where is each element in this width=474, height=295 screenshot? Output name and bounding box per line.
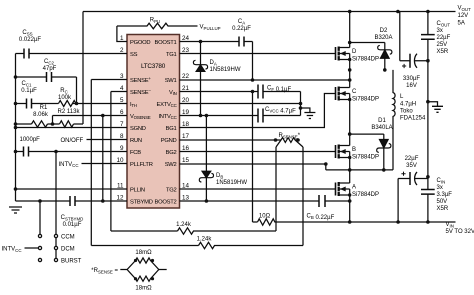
pin numbers [116,35,189,202]
svg-text:22µF: 22µF [405,156,419,162]
svg-text:16: 16 [182,145,190,152]
svg-text:50V: 50V [437,199,448,205]
svg-text:1000pF: 1000pF [20,137,41,143]
svg-text:22µF: 22µF [437,35,451,41]
svg-text:SW1: SW1 [165,78,177,84]
svg-text:3.3µF: 3.3µF [437,192,453,198]
svg-text:TG1: TG1 [166,52,177,58]
RSENSE note parallel resistors [120,258,166,270]
svg-text:1.24k: 1.24k [197,237,213,243]
wire CA to SW1 vertical [252,42,254,81]
wire BOOST2 pin13 row with CB [180,200,350,202]
svg-text:VOSENSE: VOSENSE [130,114,151,120]
svg-text:SENSE+: SENSE+ [130,76,151,84]
wire BG1 pin18 row to gate C [180,94,336,128]
svg-text:VIN: VIN [446,222,454,228]
svg-text:INTVCC: INTVCC [2,247,22,253]
svg-text:10: 10 [116,157,124,164]
svg-text:9: 9 [120,145,124,152]
svg-text:A: A [352,185,356,191]
svg-text:DCM: DCM [61,247,75,253]
node DCM left post [38,246,41,249]
svg-text:CSS: CSS [22,30,32,36]
capacitor CSS [24,49,29,59]
svg-text:D2: D2 [380,28,388,34]
svg-text:CIN: CIN [437,178,446,184]
svg-text:11: 11 [117,183,124,190]
wire SENSE+ vertical drop [90,80,92,246]
wire BOOST1 pin24 row [180,41,253,43]
svg-text:100k: 100k [58,95,72,101]
wire output cap vertical [427,12,429,223]
resistor 10ohm [258,219,456,225]
svg-text:18mΩ: 18mΩ [135,250,152,256]
capacitor CVCC [258,109,263,123]
svg-text:0.1µF: 0.1µF [21,88,37,94]
svg-text:FCB: FCB [130,150,141,156]
svg-text:0.22µF: 0.22µF [232,26,251,32]
wire INTVCC to DCM post [25,247,39,249]
wire sense bottom row with 1.24k [91,245,198,247]
svg-text:*RSENSE =: *RSENSE = [91,268,118,274]
svg-text:22: 22 [182,73,190,80]
svg-text:RSENSE*: RSENSE* [279,133,301,139]
svg-text:23: 23 [182,47,190,54]
wire FCB pin9 row with 1000pF [16,151,128,153]
svg-text:0.022µF: 0.022µF [19,37,41,43]
svg-text:3: 3 [120,73,124,80]
svg-text:2: 2 [120,47,124,54]
wire D drain vertical [349,12,351,48]
svg-text:SS: SS [130,52,138,58]
capacitor CF [258,85,263,99]
svg-text:INTVCC: INTVCC [158,114,176,120]
svg-text:R1: R1 [40,105,48,111]
svg-text:21: 21 [182,85,190,92]
svg-text:1N5819HW: 1N5819HW [210,67,241,73]
svg-text:LTC3780: LTC3780 [141,63,166,70]
inductor L [393,70,395,170]
node BURST right post [54,258,57,261]
capacitor CC2 [47,72,52,82]
wire left ground rail [15,54,17,202]
svg-text:CB 0.22µF: CB 0.22µF [307,214,335,221]
resistor R 1.24k lower [199,242,304,248]
resistor RSENSE [276,138,304,147]
svg-text:8.06k: 8.06k [33,112,49,118]
svg-text:BOOST1: BOOST1 [154,40,176,46]
svg-text:3x: 3x [437,185,443,191]
wire CC2 branch row [16,77,77,104]
svg-text:BG1: BG1 [166,126,177,132]
wire SENSE+ pin3 stub [91,79,127,81]
svg-text:1N5819HW: 1N5819HW [216,180,247,186]
svg-text:VOUT: VOUT [458,6,472,12]
wire sense lower row with 1.24k [111,230,178,232]
svg-text:Si7884DP: Si7884DP [352,97,379,103]
svg-text:C: C [352,89,357,95]
wire SGND pin7 row [16,127,128,129]
svg-text:12V: 12V [458,13,469,19]
transistor C Si7884DP [335,87,337,100]
svg-text:BG2: BG2 [166,150,177,156]
svg-text:5A: 5A [458,21,465,27]
wire VOSENSE pin6 row [53,115,128,117]
wire SW2 pin15 row [180,164,326,170]
resistor R1 [32,121,48,127]
capacitor COUT ceramic [421,35,435,40]
svg-text:13: 13 [182,195,190,202]
svg-text:14: 14 [182,183,190,190]
node BURST left post [38,258,41,261]
svg-text:PGOOD: PGOOD [130,40,150,46]
svg-text:4.7µH: 4.7µH [400,101,416,107]
wire VOSENSE tap vertical [52,116,54,125]
wire VOSENSE mystery drop [102,116,104,202]
svg-text:1: 1 [120,35,124,42]
diode DA 1N5819HW [200,42,202,65]
svg-text:X5R: X5R [437,206,449,212]
wire RSENSE left vertical [275,147,277,231]
svg-text:CC2: CC2 [44,59,55,65]
svg-text:35V: 35V [406,163,417,169]
svg-text:25V: 25V [437,42,448,48]
wire PGOOD pin1 stub and riser [117,26,127,42]
diode DB 1N5819HW [205,116,207,172]
wire PLLIN pin11 row [16,188,128,190]
ground symbol right [432,106,443,112]
wire D2 cathode row [350,42,385,44]
svg-text:ITH: ITH [130,102,137,108]
svg-text:EXTVCC: EXTVCC [157,102,177,108]
svg-text:STBYMD: STBYMD [130,199,153,205]
wire VIN pin21 row with CF [180,91,301,93]
svg-text:Si7884DP: Si7884DP [352,155,379,161]
wire TG2 pin14 row to gate A [180,188,336,190]
ground symbol mid [304,113,315,119]
wire SS row with CSS [16,53,128,55]
resistor R 1.24k upper [178,228,277,234]
svg-text:D1: D1 [378,118,386,124]
wire divider row [16,123,84,125]
IC pin names [130,40,177,206]
wire CF CVCC ground vertical [300,92,302,116]
svg-text:CF 0.1µF: CF 0.1µF [267,86,291,93]
svg-text:Si7884DP: Si7884DP [352,57,379,63]
svg-text:7: 7 [120,121,124,128]
svg-text:CC1: CC1 [22,81,33,87]
diode D1 B340LA [383,134,385,139]
wire D1 anode row [350,133,384,135]
svg-text:BURST: BURST [61,259,82,265]
svg-text:47pF: 47pF [43,66,57,72]
svg-text:5V TO 32V: 5V TO 32V [446,229,474,235]
wire SENSE- pin4 stub [111,91,127,93]
svg-text:INTVCC: INTVCC [59,162,79,168]
svg-text:8: 8 [120,133,124,140]
svg-text:FDA1254: FDA1254 [400,115,426,121]
wire A source to VIN rail vertical [349,189,351,222]
wire FCB select right vertical [55,152,57,259]
wire BG2 pin16 row to gate B [180,151,336,153]
svg-text:15: 15 [182,157,190,164]
wire SENSE- vertical drop [110,92,112,232]
svg-text:24: 24 [182,35,190,42]
wire CCM select left vertical [39,201,41,234]
svg-text:VPULLUP: VPULLUP [200,25,221,31]
svg-text:CVCC 4.7µF: CVCC 4.7µF [265,107,296,114]
wire SW1 pin22 row [180,79,350,81]
wire ground stub mid [301,108,310,113]
capacitor CB [319,195,325,207]
wire PGND pin17 row [180,139,278,141]
capacitor CSTBYMD [70,196,75,206]
svg-text:SENSE−: SENSE− [130,88,151,96]
svg-text:D: D [352,49,357,55]
ground symbol left [9,207,22,213]
svg-text:20: 20 [182,97,190,104]
svg-text:RUN: RUN [130,138,142,144]
wire ITH row pin5 [16,103,128,105]
capacitor CIN ceramic [421,190,435,195]
svg-text:0.01µF: 0.01µF [63,222,82,228]
capacitor 22uF electrolytic [409,172,411,185]
svg-text:4: 4 [120,85,124,92]
svg-text:CA: CA [238,19,245,25]
diode D2 B320A [384,43,386,50]
wire EXTVCC pin20 row [180,103,301,105]
node CCM right post [54,234,57,237]
capacitor CA [239,37,244,47]
svg-text:330µF: 330µF [403,76,420,82]
resistor RPU [117,23,198,29]
wire RUN pin8 row from ON/OFF [87,139,128,141]
capacitor C 1000pF [24,147,29,157]
wire ground stub right [428,102,438,107]
wire VIN drop vertical [252,92,254,223]
svg-text:CSTBYMD: CSTBYMD [61,215,84,221]
svg-text:SGND: SGND [130,126,146,132]
svg-text:18mΩ: 18mΩ [135,286,152,291]
svg-text:12: 12 [116,195,124,202]
svg-text:DB: DB [216,173,223,179]
svg-text:18: 18 [182,121,190,128]
svg-text:RC: RC [60,88,68,94]
wire C source to B drain vertical [349,94,351,146]
svg-text:PLLIN: PLLIN [130,187,145,193]
svg-text:5: 5 [120,97,124,104]
svg-text:RPU: RPU [150,18,160,24]
svg-text:L: L [400,94,404,100]
svg-text:R2 113k: R2 113k [58,109,81,115]
svg-text:BOOST2: BOOST2 [154,199,176,205]
svg-text:PGND: PGND [161,138,177,144]
wire RSENSE right vertical [302,147,304,246]
wire SW2 node row [326,169,393,171]
svg-text:B320A: B320A [374,35,392,41]
svg-text:Si7884DP: Si7884DP [352,192,379,198]
svg-text:CCM: CCM [61,235,75,241]
wire VOUT sense vertical to R2 [82,12,84,125]
wire INTVCC pin19 row with CVCC [180,115,301,117]
wire D source to C drain vertical [349,54,351,88]
node CCM left post [38,234,41,237]
svg-text:19: 19 [182,109,190,116]
svg-text:VIN: VIN [169,90,177,96]
IC U1 LTC3780 body [127,35,180,209]
svg-text:ON/OFF: ON/OFF [61,138,84,144]
svg-text:6: 6 [120,109,124,116]
svg-text:X5R: X5R [437,49,449,55]
svg-text:Toko: Toko [400,108,413,114]
wire PLLFLTR pin10 row from INTVCC [82,163,128,165]
svg-text:16V: 16V [406,83,417,89]
wire B source to A drain vertical [349,152,351,184]
svg-text:17: 17 [182,133,190,140]
svg-text:PLLFLTR: PLLFLTR [130,162,153,168]
svg-text:10Ω: 10Ω [259,214,271,220]
svg-text:3x: 3x [437,28,443,34]
capacitor CC1 [27,99,32,109]
svg-text:SW2: SW2 [165,162,177,168]
resistor RC [59,101,76,107]
wire VIN bottom rail with 10ohm [253,221,258,223]
wire TG1 pin23 row to gate D [180,53,336,55]
wire VOUT top rail [83,11,456,13]
capacitor 330uF electrolytic [409,54,411,68]
svg-text:DA: DA [210,60,217,66]
svg-text:TG2: TG2 [166,187,177,193]
transistor A Si7884DP [335,183,337,196]
transistor D Si7884DP [335,47,337,60]
svg-text:1.24k: 1.24k [176,222,192,228]
svg-text:COUT: COUT [437,21,451,27]
node DCM right post [54,246,57,249]
resistor R2 [60,121,74,127]
svg-text:B340LA: B340LA [371,125,392,131]
wire STBYMD pin12 row with CSTBYMD [16,200,128,202]
transistor B Si7884DP [335,145,337,158]
svg-text:B: B [352,147,356,153]
